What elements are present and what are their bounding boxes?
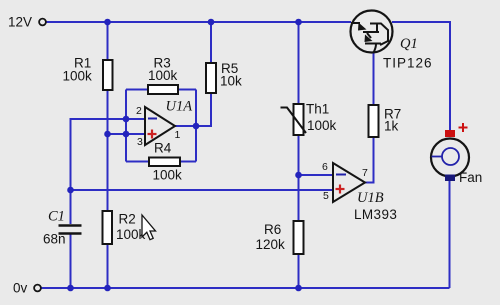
wire R3/R4 right vertical to U1A output (195, 90, 197, 162)
wire Th1-R6 node to U1B pin6 (299, 174, 334, 176)
terminal 12V (8, 15, 46, 30)
wire Th1 bottom to R6 top (298, 135, 300, 221)
fan body (431, 139, 469, 177)
svg-text:5: 5 (323, 190, 329, 202)
node tap pin3 (123, 131, 130, 138)
svg-text:120k: 120k (256, 237, 286, 252)
capacitor C1 (43, 209, 82, 247)
wire C1 top node up to U1A pin2 (71, 119, 146, 224)
fan M1 (431, 123, 482, 185)
svg-text:100k: 100k (116, 227, 146, 242)
transistor Q1 (351, 11, 433, 71)
svg-text:R4: R4 (154, 141, 172, 156)
svg-text:68n: 68n (43, 232, 66, 247)
wire C1 node to U1B pin5 (71, 189, 334, 191)
wire R1 bottom to R2 top (107, 90, 109, 211)
wire R2 bottom to 0v rail (107, 244, 109, 288)
resistor R6 (256, 221, 304, 254)
svg-text:100k: 100k (63, 69, 93, 84)
svg-text:100k: 100k (148, 68, 178, 83)
fan plus sign (459, 123, 468, 132)
svg-text:LM393: LM393 (354, 207, 397, 222)
fan minus terminal (445, 175, 455, 182)
svg-text:100k: 100k (153, 168, 183, 183)
svg-text:U1A: U1A (166, 99, 193, 115)
mouse cursor (142, 215, 156, 240)
wire R3 right lead (178, 89, 196, 91)
wire R4 left lead (126, 161, 149, 163)
op-amp U1A (136, 99, 192, 149)
resistor R3 (148, 56, 178, 95)
wire R3 left lead (126, 89, 148, 91)
fan plus terminal (445, 130, 455, 137)
svg-text:7: 7 (362, 167, 368, 179)
svg-text:Th1: Th1 (306, 102, 329, 117)
svg-text:1k: 1k (384, 119, 399, 134)
svg-text:C1: C1 (48, 209, 65, 225)
wire 0v bottom rail (41, 287, 450, 289)
wire Th1 top lead (298, 22, 300, 104)
svg-text:6: 6 (322, 161, 328, 173)
svg-text:Q1: Q1 (400, 36, 418, 52)
svg-text:Fan: Fan (459, 170, 482, 185)
wire R4 right lead (180, 161, 196, 163)
wire divider node to U1A pin3 (108, 133, 146, 135)
resistor R2 (103, 211, 146, 244)
wire R6 bottom to 0v rail (298, 254, 300, 288)
resistor R5 (206, 61, 242, 93)
node rail-R6 bottom (295, 285, 302, 292)
wire R1 top lead (107, 22, 109, 60)
thermistor Th1 (281, 102, 337, 136)
svg-text:100k: 100k (307, 118, 337, 133)
U1A inverting minus (148, 118, 157, 120)
node C1 / pin5 (67, 187, 74, 194)
wire R3/R4 left tap vertical (125, 90, 127, 162)
svg-text:U1B: U1B (357, 190, 384, 206)
node tap pin2 (123, 116, 130, 123)
wire U1B output up to R7 bottom (365, 137, 374, 183)
svg-text:TIP126: TIP126 (383, 56, 433, 71)
U1A non-inverting plus (148, 130, 157, 139)
node rail-C1 bottom (67, 285, 74, 292)
node Th1-R6 / pin6 (295, 172, 302, 179)
svg-text:12V: 12V (8, 15, 32, 30)
node rail-R1 (104, 19, 111, 26)
svg-text:R2: R2 (119, 212, 136, 227)
node R1-R2 / pin3 (104, 131, 111, 138)
svg-text:2: 2 (136, 105, 142, 117)
wire fan bottom to 0v rail (449, 181, 451, 288)
svg-text:3: 3 (137, 136, 143, 148)
svg-text:R6: R6 (264, 222, 281, 237)
wire R7 top to Q1 base (373, 53, 375, 105)
resistor R4 (149, 141, 182, 183)
op-amp U1B (322, 161, 397, 222)
svg-text:10k: 10k (220, 74, 242, 89)
resistor R7 (369, 105, 402, 137)
node rail-R5 (208, 19, 215, 26)
node U1A output (193, 123, 200, 130)
terminal 0v (13, 281, 41, 296)
U1B inverting minus (336, 174, 346, 176)
node rail-Th1 (295, 19, 302, 26)
wire C1 bottom to 0v rail (70, 234, 72, 288)
svg-text:1: 1 (175, 129, 181, 141)
U1B non-inverting plus (336, 185, 345, 194)
wire 12V top rail (47, 21, 352, 23)
wire Q1 collector to fan top (392, 22, 450, 130)
resistor R1 (63, 56, 113, 91)
svg-text:0v: 0v (13, 281, 28, 296)
node rail-R2 bottom (104, 285, 111, 292)
wire R5 top lead (210, 22, 212, 63)
wire U1A output to R5 bottom (175, 93, 211, 126)
